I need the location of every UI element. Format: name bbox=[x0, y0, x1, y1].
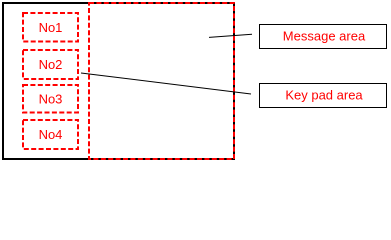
svg-text:Key pad area: Key pad area bbox=[285, 87, 363, 102]
Key pad area label box bbox=[260, 84, 387, 108]
Message area label box bbox=[260, 25, 387, 49]
callout line to Key pad area box bbox=[81, 73, 251, 94]
key No4 (red dashed box) bbox=[23, 120, 78, 149]
key No3 (red dashed box) bbox=[23, 85, 78, 113]
svg-text:Message area: Message area bbox=[283, 29, 366, 44]
message area (red dashed rectangle) bbox=[89, 3, 234, 159]
key No1 (red dashed box) bbox=[23, 13, 78, 42]
key No2 (red dashed box) bbox=[23, 50, 78, 79]
callout line to Message area box bbox=[209, 34, 252, 37]
svg-text:No4: No4 bbox=[39, 127, 63, 142]
svg-text:No3: No3 bbox=[39, 91, 63, 106]
svg-text:No1: No1 bbox=[39, 20, 63, 35]
svg-text:No2: No2 bbox=[39, 57, 63, 72]
panel outline (black rectangle) bbox=[3, 3, 234, 159]
